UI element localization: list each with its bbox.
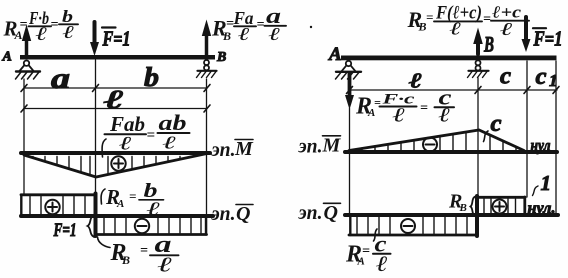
formula RB = Fa/l = a/l (left top right)	[211, 3, 281, 44]
shear negative box (left)	[97, 216, 207, 235]
beam left	[20, 55, 215, 60]
formula RA = F·b/l = b/l (left top)	[3, 7, 75, 45]
svg-text:c: c	[500, 64, 511, 90]
svg-text:ℓ: ℓ	[163, 133, 178, 153]
formula Fab/l = ab/l	[109, 110, 186, 155]
dimension line l-c-c1 (right)	[347, 87, 560, 94]
label ep.Q (left)	[211, 203, 251, 225]
plus sign in shear diagram (right)	[493, 200, 507, 214]
shear positive hatch (left)	[30, 197, 85, 215]
svg-text:ℓ: ℓ	[104, 85, 124, 114]
formula RA = F·c/l = c/l (right)	[355, 85, 452, 127]
shear negative hatch (left)	[104, 218, 201, 233]
brace RB (right)	[471, 197, 477, 217]
minus sign in moment diagram (right)	[423, 138, 437, 152]
svg-text:Q: Q	[236, 203, 250, 225]
leader to RA label	[101, 189, 105, 204]
svg-text:Fab: Fab	[109, 112, 145, 136]
label ep.M (left)	[211, 138, 254, 161]
leader to RB label	[98, 237, 111, 248]
svg-text:ab: ab	[159, 110, 187, 135]
reaction arrow RA (left, up)	[22, 25, 31, 58]
svg-text:ℓ: ℓ	[500, 19, 514, 39]
svg-text:ℓ: ℓ	[119, 134, 132, 155]
svg-text:=: =	[129, 189, 136, 204]
svg-text:=: =	[51, 18, 59, 33]
dimension line l (left)	[21, 105, 210, 112]
leader to moment peak (left)	[102, 139, 106, 157]
svg-text:=: =	[420, 101, 428, 116]
plus sign in moment diagram (left)	[111, 156, 125, 170]
svg-text:A: A	[2, 50, 12, 65]
moment diagram baseline (left)	[21, 151, 210, 155]
svg-text:ℓ: ℓ	[393, 105, 406, 127]
svg-text:B: B	[459, 202, 467, 214]
shear negative box (right)	[349, 215, 477, 235]
label ep.Q (right)	[298, 202, 338, 224]
svg-text:эп.: эп.	[298, 136, 323, 158]
beam right	[341, 56, 557, 61]
dimension line a-b (left)	[21, 85, 210, 92]
svg-text:=: =	[257, 18, 265, 33]
svg-text:=: =	[426, 10, 433, 25]
svg-text:1: 1	[541, 171, 552, 195]
support A pinned (right)	[336, 61, 362, 79]
reaction arrow RA (right, down)	[345, 73, 354, 110]
moment diagram triangle (right)	[349, 130, 524, 151]
ink speck	[310, 26, 312, 28]
svg-text:c: c	[491, 111, 502, 137]
formula RB = F(l+c)/l = (l+c)/l (right top)	[407, 3, 522, 39]
minus sign in shear diagram (right)	[401, 219, 415, 233]
leader to RA label (right)	[374, 229, 378, 241]
moment diagram triangle (left)	[24, 154, 207, 178]
minus sign in shear diagram (left)	[135, 219, 149, 233]
svg-text:эп.: эп.	[211, 139, 236, 161]
shear step at B (right)	[475, 196, 479, 236]
shear diagram baseline (left)	[21, 214, 213, 218]
svg-text:B: B	[216, 50, 226, 65]
svg-text:эп.: эп.	[298, 202, 323, 224]
support B roller (right)	[468, 60, 489, 77]
svg-text:B: B	[483, 32, 494, 57]
svg-text:нул: нул	[531, 138, 551, 155]
label ep.M (right)	[298, 135, 342, 158]
svg-text:F=1: F=1	[53, 220, 77, 241]
svg-text:ℓ: ℓ	[147, 199, 161, 220]
svg-text:A: A	[328, 44, 342, 65]
svg-text:M: M	[234, 138, 254, 160]
moment diagram baseline (right)	[345, 150, 557, 154]
leader to peak c	[484, 131, 489, 142]
label RA=c/l below (right)	[345, 232, 388, 277]
svg-text:a: a	[51, 62, 70, 95]
label RB=a/l below	[110, 232, 173, 277]
svg-text:нул.: нул.	[528, 200, 556, 217]
svg-text:A: A	[116, 198, 124, 210]
extension below RA arrow (right)	[349, 108, 351, 214]
svg-text:ℓ: ℓ	[269, 24, 281, 44]
support A pinned (left)	[16, 61, 41, 80]
extension line at A (left)	[23, 79, 25, 194]
extension line at load (right)	[526, 61, 528, 197]
svg-text:F=1: F=1	[102, 27, 131, 51]
svg-text:ℓ: ℓ	[409, 69, 422, 93]
extension line at B (right)	[477, 78, 479, 197]
svg-text:c: c	[536, 64, 547, 90]
svg-text:=: =	[20, 18, 28, 33]
svg-text:M: M	[322, 135, 342, 157]
moment hatch (right)	[362, 132, 516, 150]
force F=1 arrow (left)	[90, 22, 99, 56]
extension line at B (left)	[206, 79, 208, 233]
reaction arrow RB (left, up)	[202, 20, 211, 58]
force F=1 arrow (right)	[522, 17, 531, 52]
svg-text:Q: Q	[324, 202, 338, 224]
shear negative hatch (right)	[357, 217, 467, 234]
moment hatch (left)	[33, 157, 192, 176]
label RA=b/l at step	[105, 180, 161, 220]
svg-text:эп.: эп.	[211, 203, 236, 225]
shear positive hatch (right)	[484, 199, 516, 213]
svg-text:B: B	[121, 253, 130, 267]
shear diagram baseline (right)	[345, 213, 558, 217]
support B roller (left)	[197, 60, 217, 78]
brace F at step	[88, 216, 95, 237]
svg-text:F=1: F=1	[533, 27, 563, 51]
leader to 1	[533, 186, 539, 196]
plus sign in shear diagram (left)	[45, 200, 59, 214]
svg-text:=: =	[140, 244, 148, 259]
label RB at step (right)	[448, 191, 467, 215]
shear positive box (left)	[21, 195, 96, 216]
reaction arrow RB (right, up)	[473, 28, 483, 55]
extension line at beam end (right)	[555, 61, 557, 214]
svg-text:=: =	[362, 244, 370, 259]
shear step at load (left)	[94, 194, 98, 237]
svg-text:=: =	[147, 128, 156, 144]
shear positive box (right)	[477, 197, 525, 215]
extension line at load (left)	[95, 60, 97, 193]
svg-text:b: b	[144, 62, 159, 92]
svg-text:=: =	[483, 12, 491, 27]
